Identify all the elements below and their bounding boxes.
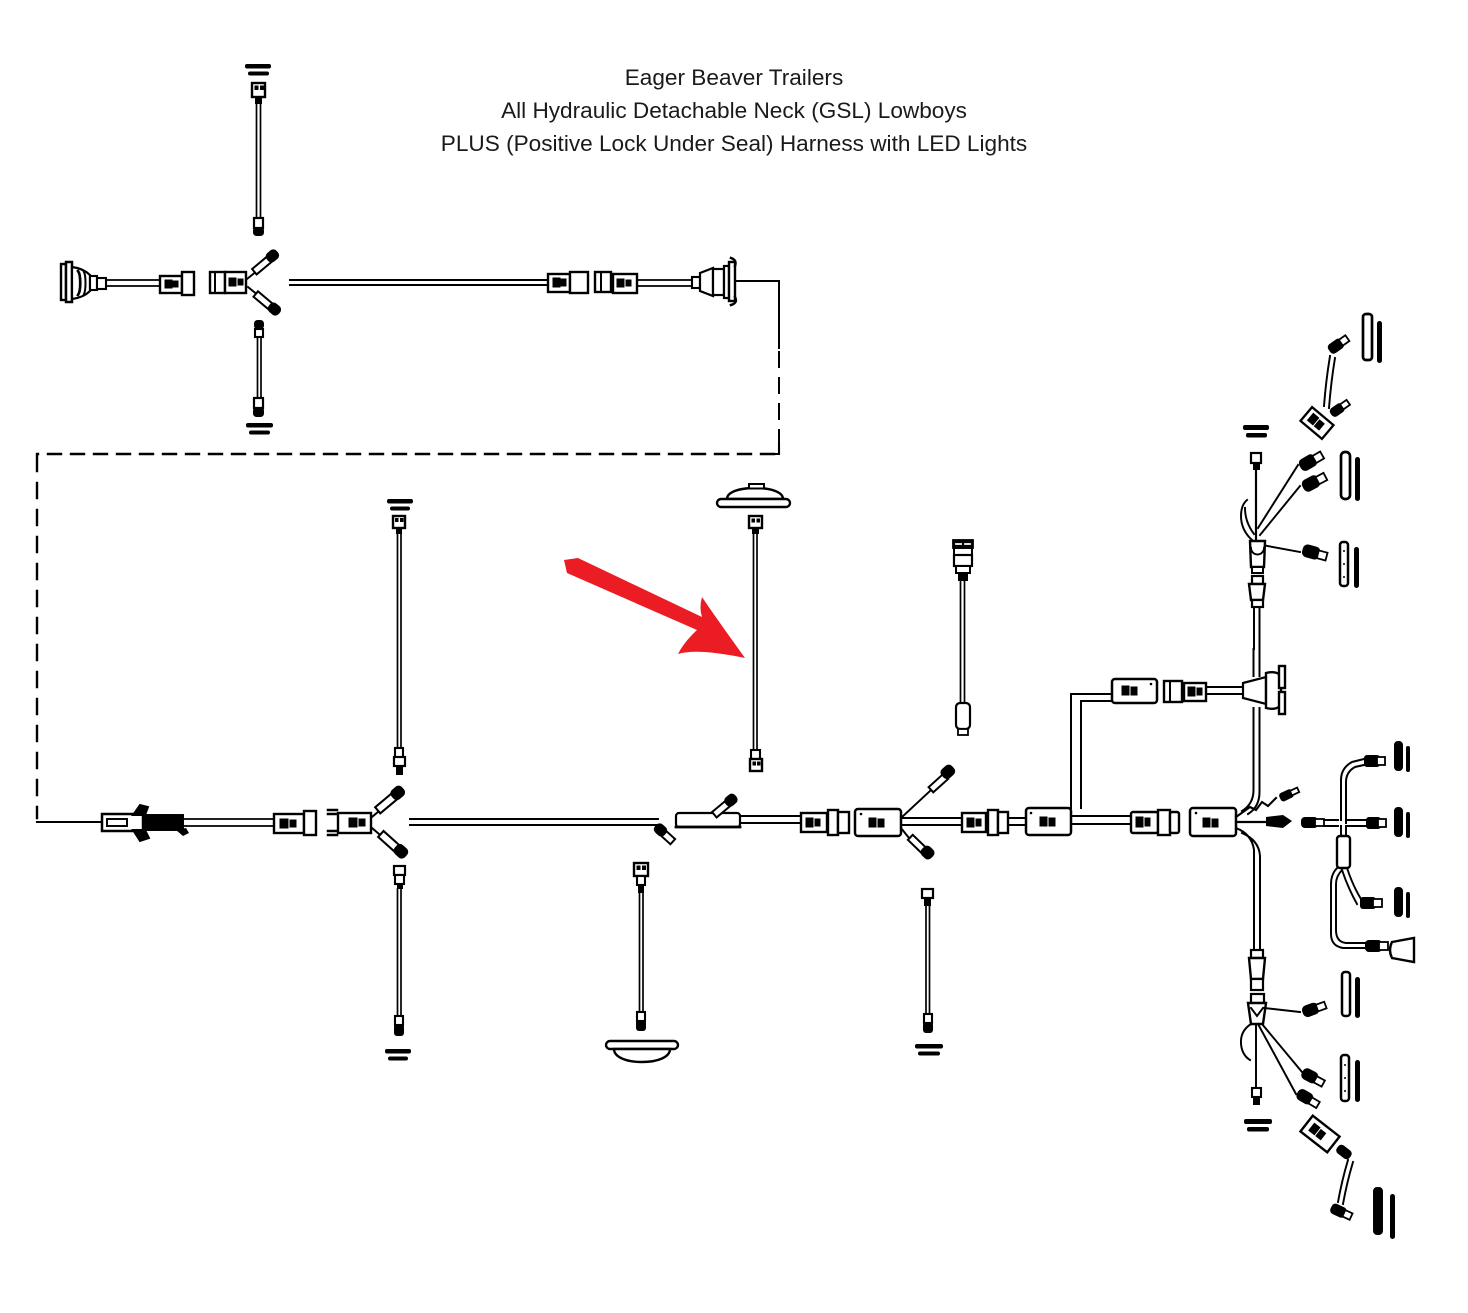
ring terminal below pigtail 2 — [246, 423, 273, 435]
lamp pair top of tree — [1395, 742, 1410, 772]
connector pair C left half — [274, 811, 316, 835]
connector pair I — [1131, 810, 1179, 835]
top marker pigtail bullet — [1326, 334, 1350, 356]
box M splay: twisted wire to upper bullet — [1236, 786, 1300, 817]
wire — [106, 280, 161, 286]
svg-text:PLUS (Positive Lock Under Seal: PLUS (Positive Lock Under Seal) Harness … — [441, 131, 1027, 156]
dashed routing line vertical left — [36, 456, 38, 818]
4-splay bullets — [1297, 449, 1325, 473]
ring terminal below pigtail 6 — [915, 1044, 943, 1056]
vertical pigtail 2 bottom plug — [253, 398, 264, 417]
barrel pigtail wire — [961, 581, 965, 704]
4-splay barrel housing — [1250, 541, 1265, 573]
ring terminal below splay — [1244, 1119, 1272, 1132]
pigtail 5 bottom plug — [636, 1012, 646, 1031]
trunk wire above connector L — [1254, 649, 1260, 676]
vertical pigtail 2 top bullet — [254, 320, 264, 337]
top marker second bullet — [1328, 398, 1351, 418]
main harness long wire — [410, 819, 658, 825]
V splay: centre drop wire and small plug — [1252, 1024, 1261, 1105]
vertical pigtail 2 wire — [258, 337, 262, 400]
box F splay: down-right bullet — [901, 828, 936, 861]
connector pair C right half — [328, 810, 371, 835]
barrel pigtail bottom plug — [956, 703, 970, 735]
box M splay: flag terminal right — [1236, 815, 1292, 828]
molded 4-flat connector L — [1243, 666, 1285, 714]
small tree: feed bullet — [1301, 817, 1338, 828]
barrel connector N — [1249, 950, 1265, 990]
vertical pigtail 1 top plug — [252, 83, 265, 104]
box F splay: up-right bullet — [901, 763, 956, 818]
wire (top harness long run) — [290, 280, 547, 285]
main junction splay with two pencil bullets — [372, 784, 409, 859]
ring terminal below pigtail 4 — [385, 1049, 411, 1061]
lamp bar pairs mid right — [1341, 452, 1360, 501]
ring terminal (right column) — [1243, 425, 1269, 438]
small tree: left drop to bottom bullet and grommet — [1331, 868, 1388, 952]
band connector below N — [1248, 994, 1266, 1024]
dome lamp pigtail bottom plug — [750, 750, 762, 771]
dome lamp (top, above arrow pigtail) — [717, 484, 790, 507]
4-splay wires — [1255, 470, 1257, 542]
wire — [740, 816, 801, 823]
small tree: lower right branch bullet — [1342, 868, 1382, 909]
small tree: right branch bullet — [1348, 817, 1386, 829]
top marker pigtail wire — [1324, 356, 1335, 408]
vertical pigtail 1 wire — [257, 104, 261, 220]
dome lamp pigtail wire — [754, 534, 758, 750]
V splay branches: two lower bullets — [1258, 1024, 1326, 1110]
ring terminal (double bar) above vertical pigtail 1 — [245, 64, 271, 76]
lamp bar pair (top right corner) — [1363, 314, 1382, 363]
barrel stack above trunk — [1249, 576, 1265, 607]
connector pair G left half — [962, 813, 986, 832]
wire from barrel stack to connector L — [1254, 607, 1260, 649]
riser wires from box H up to box J2 — [1071, 694, 1112, 808]
box M splay: drop wire down — [1236, 828, 1260, 950]
ring terminal above pigtail 3 — [387, 499, 413, 511]
pigtail 3 top plug — [393, 516, 405, 534]
svg-text:All Hydraulic Detachable Neck: All Hydraulic Detachable Neck (GSL) Lowb… — [501, 98, 967, 123]
vertical pigtail 1 bottom bullet — [253, 218, 264, 236]
lamp pair lower right of tree — [1395, 888, 1410, 918]
wire pair K to cone L — [1206, 687, 1243, 694]
junction box J2 — [1112, 679, 1157, 703]
wire — [183, 819, 274, 826]
wire — [637, 280, 692, 286]
pigtail 3 wire — [398, 534, 402, 750]
wire pair G to box H — [1008, 818, 1026, 825]
inline splice D with two angled bullets — [653, 793, 740, 845]
connector pair B left half — [548, 272, 588, 293]
vertical drop line right of top harness — [778, 281, 780, 348]
connector pair A left half — [160, 272, 194, 295]
pigtail 6 wire — [926, 906, 930, 1016]
dome lamp (bottom, inverted) — [583, 1041, 700, 1062]
svg-text:Eager Beaver Trailers: Eager Beaver Trailers — [625, 65, 844, 90]
connector pair E right half — [828, 810, 849, 835]
lamp pair mid bottom right — [1342, 972, 1360, 1018]
4-flat molded connector (main harness left end) — [102, 805, 189, 841]
mid pigtail 5 top plug — [634, 863, 648, 893]
wire lead-in to main harness — [37, 821, 103, 823]
junction box M — [1190, 808, 1236, 836]
cone grommet — [1390, 938, 1414, 962]
V splay: left bend wire — [1241, 1024, 1251, 1060]
dashed routing line horizontal — [37, 453, 774, 455]
pigtail 4 (below main line) top plug — [394, 866, 405, 889]
wire from box F to pair G — [901, 818, 963, 825]
wire box H to pair I — [1071, 816, 1131, 824]
splice junction branches (top harness) — [247, 248, 282, 317]
top marker angled connector — [1300, 407, 1333, 439]
connector pair G right half — [988, 810, 1008, 835]
lamp bar pair (bottom right) — [1374, 1188, 1395, 1239]
title text — [441, 65, 1027, 156]
connector pair K — [1164, 681, 1206, 702]
license lamp pigtail (angled connector + wire) — [1300, 1116, 1353, 1222]
connector pair E left half — [801, 813, 827, 832]
V splay branches: up-right bullet — [1264, 999, 1327, 1018]
pigtail 3 bottom plug — [394, 748, 405, 775]
connector pair B right half — [595, 272, 637, 293]
trunk wire below connector L down to box M — [1242, 708, 1260, 814]
7-way molded plug P2 (top-right) — [692, 258, 736, 305]
wire from plug P2 to corner — [737, 280, 779, 282]
dome lamp pigtail top plug — [749, 516, 762, 534]
pigtail 4 bottom plug — [394, 1016, 404, 1036]
right pigtail 6 top plug — [922, 889, 933, 906]
small tree: inline fuse body — [1337, 826, 1350, 868]
small tree: trunk up and top branch bullet — [1341, 755, 1385, 823]
4-splay top small plug — [1251, 453, 1261, 470]
pigtail 6 bottom plug — [923, 1014, 933, 1033]
pigtail 4 wire — [398, 889, 402, 1018]
barrel pigtail above pair G: top connector — [953, 540, 973, 581]
pigtail 5 wire — [640, 893, 644, 1014]
red arrow — [564, 558, 745, 658]
connector pair A right half — [210, 272, 246, 293]
junction box F — [855, 809, 901, 836]
7-way round plug P1 (top-left) — [61, 262, 106, 302]
lamp pair right of tree — [1395, 808, 1410, 838]
junction box H — [1026, 808, 1071, 835]
